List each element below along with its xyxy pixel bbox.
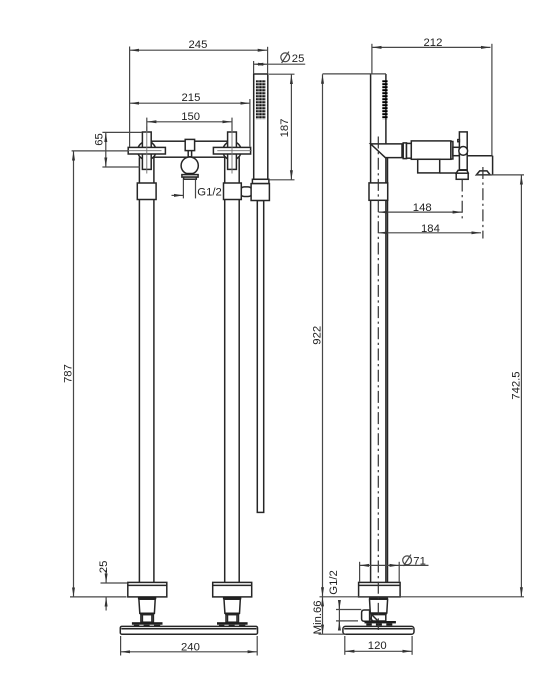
left riser pipe (138, 157, 140, 582)
foot neck (side) (370, 599, 388, 613)
dim 184 (379, 232, 482, 234)
dim 245 (130, 49, 268, 51)
dim 150 (147, 121, 232, 123)
connector to handle (453, 147, 460, 155)
hand shower lower collar (252, 179, 269, 183)
ext 25 top (101, 582, 128, 584)
left floor flange (128, 582, 167, 597)
spout ball (181, 157, 198, 174)
hose nut dome (456, 170, 468, 173)
dim 148 (379, 211, 463, 213)
hand shower spray face hatch (256, 80, 266, 119)
right handle hub (223, 142, 241, 160)
shower holder (side) (371, 144, 402, 158)
ext 187 bottom (269, 179, 295, 181)
ext G1/2 bottom (336, 620, 358, 622)
svg-text:787: 787 (62, 364, 74, 383)
ext 65 bottom (102, 166, 140, 168)
diverter knob (185, 139, 194, 150)
svg-text:148: 148 (413, 202, 432, 214)
right foot cylinder (226, 615, 239, 623)
body end cap (451, 142, 453, 160)
spout outlet bell (476, 171, 490, 175)
base plate (side) (343, 626, 414, 634)
svg-text:G1/2: G1/2 (328, 570, 340, 595)
dim 240 (121, 651, 258, 653)
dim 120 (345, 650, 412, 652)
svg-text:187: 187 (279, 119, 291, 138)
dim 25 (flange height) (105, 570, 107, 583)
right foot bar (217, 622, 248, 625)
G1/2 leader (spout) (172, 194, 184, 196)
G1/2 inlet stub (362, 610, 370, 621)
hose connection capsule (240, 187, 253, 197)
flange gasket (side) (369, 597, 388, 599)
mixer body (side) (411, 141, 451, 159)
spout center line (482, 167, 484, 239)
dim diameter 71 (360, 564, 400, 566)
right foot neck (224, 599, 240, 613)
shower holder block (251, 184, 269, 201)
ext dia71 right (398, 562, 400, 582)
dim 787 (73, 151, 75, 597)
ext dia71 left (359, 562, 361, 582)
column pipe (370, 74, 372, 582)
left foot bar (132, 622, 163, 625)
ext line 245 right (267, 47, 269, 74)
svg-text:245: 245 (189, 39, 208, 51)
ext 787 top (72, 150, 128, 152)
svg-text:742.5: 742.5 (510, 371, 522, 399)
dim 215 (130, 102, 250, 104)
svg-text:212: 212 (424, 37, 443, 49)
bell bottom / ext line (476, 174, 524, 176)
svg-text:25: 25 (98, 561, 110, 574)
left union collar (137, 183, 156, 200)
line to hose nut (440, 172, 457, 174)
ext 120 left (344, 636, 346, 655)
left foot band (140, 613, 155, 615)
top ext line to 922 (323, 73, 387, 75)
svg-text:Min.66: Min.66 (312, 600, 324, 634)
ext 212 right (491, 44, 493, 156)
long ext line flange bottom (320, 596, 525, 598)
left handle vertical spoke (142, 132, 151, 169)
svg-text:65: 65 (93, 133, 105, 146)
left handle center lines (127, 150, 162, 152)
left foot neck (139, 599, 155, 613)
right handle horizontal spoke (213, 147, 250, 154)
ext line 215 right (249, 99, 251, 147)
hand shower spray hatch (side) (382, 80, 387, 119)
ext 212 left (371, 44, 373, 74)
floor flange (side) (359, 582, 401, 597)
ext 240 right (256, 636, 258, 656)
svg-text:71: 71 (413, 556, 426, 568)
dim 65 (105, 132, 107, 167)
ext 240 left (120, 636, 122, 656)
spout ball shadow (186, 173, 194, 175)
right floor flange (213, 582, 252, 597)
ext line left (245/215) (129, 47, 131, 148)
dim 187 (290, 75, 292, 180)
left foot cylinder (141, 615, 154, 623)
handle hub circle (side) (459, 147, 468, 156)
right handle center lines (217, 150, 252, 152)
lower housing box (418, 159, 440, 173)
shared ext line bottom (70, 596, 127, 598)
holder collar rings (403, 143, 406, 159)
ext 65 top (102, 131, 142, 133)
dim Min.66 (322, 597, 324, 634)
spout arm step (467, 155, 492, 157)
svg-text:G1/2: G1/2 (197, 186, 222, 198)
hose nut body (456, 173, 468, 179)
mixer body bar (152, 141, 227, 157)
ext 120 right (411, 636, 413, 655)
inlet diagonal connector (370, 613, 378, 621)
left flange gasket (138, 597, 156, 599)
spout aerator (182, 175, 198, 178)
ext 187 top (269, 73, 295, 75)
right union collar (224, 183, 242, 200)
diverter stem (188, 150, 191, 157)
ext 150 right (231, 118, 233, 131)
hand shower head body (254, 74, 268, 179)
ext 150 left (146, 118, 148, 131)
svg-text:120: 120 (368, 640, 387, 652)
left handle horizontal spoke (128, 147, 165, 154)
svg-text:240: 240 (181, 641, 200, 653)
handle stem bar (side) (459, 132, 467, 170)
right handle vertical spoke (228, 132, 237, 169)
ext Min.66 bottom (319, 633, 347, 635)
svg-text:25: 25 (292, 53, 305, 65)
dim 742.5 (520, 175, 522, 597)
foot cylinder (side) (371, 615, 386, 621)
svg-text:922: 922 (311, 326, 323, 345)
right foot band (225, 613, 240, 615)
dim diameter 25 hand shower (254, 63, 268, 65)
right flange gasket (223, 597, 241, 599)
left handle hub (138, 142, 156, 160)
base plate front view (120, 626, 257, 634)
hand shower hose (257, 201, 263, 513)
column center line (377, 137, 379, 631)
dim 212 (372, 46, 491, 48)
pipe union collar (side) (369, 183, 388, 200)
svg-text:184: 184 (421, 223, 440, 235)
dim G1/2 inlet (338, 600, 340, 631)
right riser pipe (224, 157, 226, 582)
foot bar (side) (365, 621, 396, 623)
ext G1/2 top (336, 609, 361, 611)
dim 922 (322, 74, 324, 597)
svg-text:215: 215 (182, 92, 201, 104)
hose nut center line (461, 180, 463, 219)
foot band (side) (370, 613, 387, 615)
svg-text:150: 150 (181, 111, 200, 123)
